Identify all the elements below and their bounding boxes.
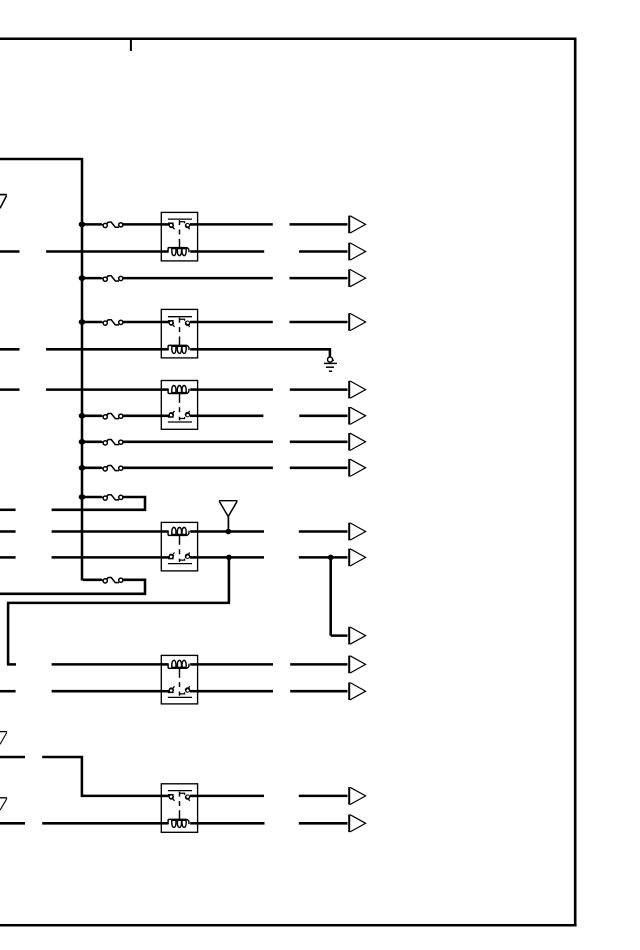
relay K4 <box>161 522 197 571</box>
wire K3 contact output <box>198 415 264 418</box>
wire row B to relay K1 coil <box>46 250 161 253</box>
wire K2 contact output <box>198 321 273 324</box>
wire row P horizontal <box>7 602 230 605</box>
wire K6 coil output <box>198 822 265 825</box>
node junction bus row C <box>79 275 86 281</box>
relay K3 <box>161 381 197 430</box>
relay K5 <box>161 655 197 704</box>
connector arrow A3 <box>349 269 365 287</box>
wire to arrow A6 <box>299 415 347 418</box>
wire to arrow A14 <box>299 795 348 798</box>
wire F5 to gap <box>123 441 273 444</box>
node junction bus row A <box>79 222 86 228</box>
wire F7 loop back <box>52 497 145 510</box>
pin label 7 (lower connector a) <box>0 732 7 745</box>
connector arrow A15 <box>349 815 365 833</box>
wire K4 coil output <box>198 530 264 533</box>
node junction row M branch down-right <box>328 555 334 561</box>
connector arrow A9 <box>349 523 365 541</box>
fuse F5 <box>101 440 123 446</box>
relay K1 <box>161 212 197 261</box>
node junction bus row H <box>79 439 86 445</box>
fuse F1 <box>101 222 123 227</box>
wire row L left stub <box>0 530 16 533</box>
wire row K left stub <box>0 509 16 512</box>
wire row M left stub <box>0 556 16 559</box>
wire top feed to bus <box>0 158 83 161</box>
wire K5 coil output <box>198 663 273 666</box>
wire row E to relay K2 coil <box>46 348 161 351</box>
node junction antenna row L <box>226 529 232 535</box>
connector arrow A11 <box>349 627 365 645</box>
wire bus to fuse F5 <box>83 441 102 444</box>
connector arrow A14 <box>349 787 365 805</box>
connector arrow A4 <box>349 313 365 331</box>
wire to arrow A8 <box>290 467 348 470</box>
wire to arrow A7 <box>290 441 348 444</box>
relay K2 <box>161 309 197 358</box>
wire row M to relay K4 contact <box>52 556 162 559</box>
fuse F8 <box>101 578 123 584</box>
wire to arrow A4 <box>290 321 348 324</box>
wire F1 to relay K1 <box>123 223 161 226</box>
wire to arrow A12 <box>290 663 347 666</box>
node junction bus row G <box>79 413 86 419</box>
wire row P left vertical <box>7 603 10 665</box>
wire K3 coil output <box>198 388 273 391</box>
wire row F left stub <box>0 388 20 391</box>
connector arrow A5 <box>349 381 365 399</box>
connector arrow A1 <box>349 216 365 234</box>
wire bus to fuse F6 <box>83 467 102 470</box>
wire row V to relay K6 coil <box>42 822 161 825</box>
wire row R to relay K5 coil <box>52 663 162 666</box>
pin label 7 (lower connector b) <box>0 798 7 810</box>
ground <box>324 357 337 371</box>
wire K1 coil output <box>198 250 265 253</box>
wire row E left stub <box>0 348 20 351</box>
node junction bus row D <box>79 319 86 325</box>
wire K1 contact output <box>198 223 273 226</box>
wire row T jog down to row U <box>42 757 161 796</box>
pin label 7 (upper connector) <box>0 195 7 209</box>
fuse F6 <box>101 466 123 472</box>
wire elbow to arrow A11 <box>331 634 348 637</box>
connector arrow A7 <box>349 433 365 451</box>
fuse F7 <box>101 495 123 501</box>
wire to arrow A3 <box>290 277 348 280</box>
connector arrow A13 <box>349 682 365 700</box>
wire row V left stub <box>0 822 25 825</box>
wire row R left stub <box>7 663 16 666</box>
wire K4 contact output <box>198 556 264 559</box>
fuse F4 <box>101 414 123 420</box>
fuse F2 <box>101 276 123 282</box>
wire branch down to row P <box>228 557 231 603</box>
wire to arrow A9 <box>299 530 348 533</box>
node junction row M branch down-left <box>226 555 232 561</box>
wire bus to fuse F1 <box>83 223 102 226</box>
wire to arrow A10 <box>299 556 348 559</box>
wire bus to fuse F3 <box>83 321 102 324</box>
wire K5 contact output <box>198 690 273 693</box>
connector arrow A12 <box>349 656 365 674</box>
wire F6 to gap <box>123 467 273 470</box>
wire K6 contact output <box>198 795 264 798</box>
relay K6 <box>161 784 197 833</box>
wire vertical bus <box>81 158 84 581</box>
wire F4 to relay K3 <box>123 415 161 418</box>
node junction bus row I <box>79 465 86 471</box>
wire row S to relay K5 contact <box>52 690 162 693</box>
wire row F to relay K3 coil <box>46 388 161 391</box>
connector arrow A10 <box>349 549 365 567</box>
node junction bus row J <box>79 494 86 500</box>
wire to arrow A1 <box>290 223 348 226</box>
wire to arrow A13 <box>290 690 347 693</box>
wire row L to relay K4 coil <box>52 530 162 533</box>
wire bus to fuse F7 <box>83 496 102 499</box>
wire row T left stub <box>0 756 25 759</box>
wire to arrow A5 <box>290 388 348 391</box>
wire bus to fuse F2 <box>83 277 102 280</box>
connector arrow A6 <box>349 407 365 425</box>
wire F8 loop back row O <box>0 580 145 594</box>
wire row B left stub <box>0 250 20 253</box>
wire to arrow A2 <box>299 250 348 253</box>
wire F2 to gap <box>123 277 273 280</box>
wire bus to fuse F4 <box>83 415 102 418</box>
wire K2 coil to ground drop <box>198 349 330 357</box>
wire bus bottom to fuse F8 <box>83 579 102 582</box>
fuse F3 <box>101 320 123 326</box>
connector arrow A2 <box>349 243 365 261</box>
wire to arrow A15 <box>299 822 348 825</box>
antenna symbol <box>219 501 238 532</box>
wire F3 to relay K2 <box>123 321 161 324</box>
wire branch down to arrow A11 <box>329 557 332 635</box>
wire row S left stub <box>0 690 16 693</box>
connector arrow A8 <box>349 459 365 477</box>
